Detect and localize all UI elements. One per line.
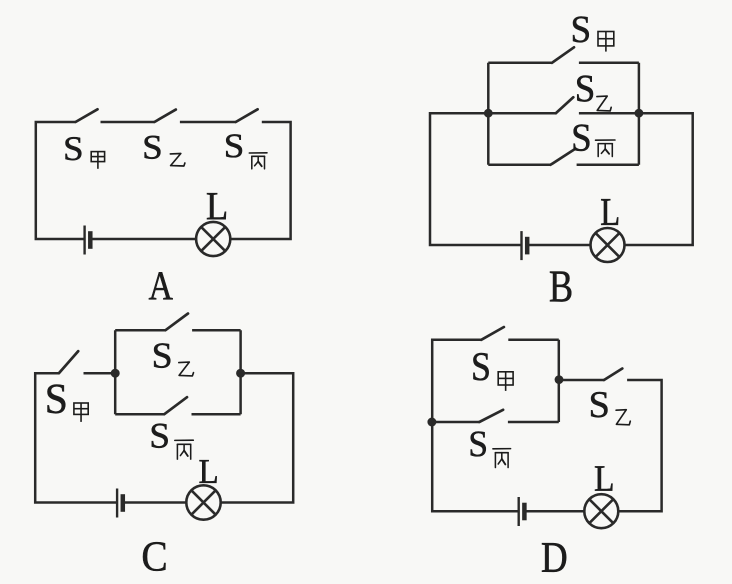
wire: C inner box right vertical	[239, 330, 242, 414]
wire: C inner box left vertical	[114, 330, 117, 414]
lamp L (circuit A)	[196, 222, 230, 256]
label jia subscript (D)	[498, 372, 513, 391]
battery cell (circuit D)	[519, 497, 525, 526]
letter B caption	[550, 272, 571, 302]
switch S_bing blade (circuit D)	[479, 410, 503, 422]
lamp L (circuit C)	[186, 485, 220, 519]
node: junction dot at inner vertical (D)	[555, 375, 564, 384]
wire: C bottom between battery and lamp	[123, 501, 186, 504]
wire: B outer left vertical and bottom-left	[430, 112, 522, 245]
wire: C outer left vertical and bottom-left	[35, 373, 117, 502]
wire: C top branch right segment	[192, 329, 241, 332]
battery cell (circuit B)	[522, 231, 528, 260]
switch S_bing blade (circuit A)	[236, 109, 258, 122]
wire: A top between S_yi and S_bing	[180, 121, 236, 124]
label bing subscript (A)	[249, 153, 267, 169]
wire: B middle branch right segment	[579, 112, 639, 115]
switch S_jia blade (circuit C)	[59, 351, 78, 373]
lamp L (circuit B)	[591, 228, 625, 262]
node: right junction dot (C)	[236, 369, 245, 378]
label yi subscript (B)	[597, 96, 611, 111]
label S of S_bing (C)	[152, 424, 168, 448]
wire: A top-right and right side	[230, 122, 290, 239]
wire: B bottom between battery and lamp	[528, 244, 591, 247]
label bing subscript (B)	[596, 140, 616, 157]
wire: C main-right, outer right vertical, bottom-right	[221, 373, 294, 502]
label S of S_yi (A)	[145, 136, 161, 159]
wire: D S_yi branch left segment	[559, 379, 604, 382]
label L (C)	[199, 460, 216, 483]
label S of S_jia (C)	[47, 385, 65, 414]
wire: B middle branch to S_yi pivot	[488, 112, 556, 115]
label S of S_yi (D)	[591, 392, 607, 417]
wire: D S_yi branch right, outer right vertical, bottom-right	[618, 380, 661, 511]
wire: B middle-right to outer right, right side, bottom-right	[625, 113, 693, 245]
wire: C top branch left segment	[115, 329, 165, 332]
battery cell (circuit C)	[117, 489, 123, 518]
wire: C bottom branch left segment	[115, 413, 164, 416]
switch S_bing blade (circuit B)	[551, 150, 574, 165]
letter C caption	[143, 542, 166, 571]
label jia subscript (B)	[598, 32, 614, 52]
switch S_jia blade (circuit B)	[552, 47, 574, 63]
letter A caption	[149, 272, 173, 299]
label yi subscript (C)	[179, 362, 194, 376]
wire: C main wire to left junction	[84, 372, 116, 375]
node: left junction dot (B)	[484, 109, 493, 118]
wire: B inner box left vertical	[487, 63, 490, 165]
switch S_yi blade (circuit A)	[154, 110, 175, 122]
wire: A bottom between battery and lamp	[91, 238, 197, 241]
label S of S_jia (B)	[573, 16, 589, 42]
node: right junction dot (B)	[635, 109, 644, 118]
wire: D top branch right segment	[508, 339, 559, 342]
wire: A top between S_jia and S_yi	[101, 121, 155, 124]
wire: D bottom between battery and lamp	[525, 510, 585, 513]
wire: B bottom branch right segment	[577, 164, 639, 167]
node: left junction dot (D)	[427, 418, 436, 427]
label S of S_yi (C)	[154, 343, 170, 367]
wire: D outer left vertical	[432, 340, 519, 511]
switch S_yi blade (circuit B)	[556, 97, 574, 113]
label bing subscript (C)	[175, 440, 194, 459]
letter D caption	[542, 543, 566, 572]
lamp L (circuit D)	[584, 494, 618, 528]
wire: circuit A left side and top-left segment	[36, 122, 85, 239]
switch S_yi blade (circuit C)	[166, 314, 189, 331]
label S of S_bing (A)	[226, 134, 242, 157]
wire: C bottom branch right segment	[192, 413, 241, 416]
label jia subscript (A)	[91, 152, 104, 169]
label L (B)	[601, 199, 618, 225]
wire: D middle branch right segment	[508, 421, 559, 424]
label S of S_jia (A)	[66, 137, 82, 160]
switch S_yi blade (circuit D)	[604, 369, 622, 381]
switch S_bing blade (circuit C)	[164, 397, 187, 414]
label S of S_bing (B)	[574, 124, 590, 151]
node: left junction dot (C)	[111, 369, 120, 378]
label S of S_bing (D)	[471, 431, 486, 456]
label L (A)	[207, 193, 226, 219]
wire: B inner box right vertical	[638, 63, 641, 165]
label jia subscript (C)	[74, 403, 88, 422]
label bing subscript (D)	[493, 449, 511, 468]
wire: B top branch right segment	[579, 62, 639, 65]
label L (D)	[595, 466, 612, 490]
wire: D inner vertical	[558, 340, 561, 422]
label S of S_jia (D)	[473, 353, 488, 380]
label yi subscript (A)	[170, 154, 185, 167]
label S of S_yi (B)	[577, 76, 593, 102]
wire: B top branch left segment	[488, 62, 552, 65]
wire: B bottom branch left segment	[488, 164, 550, 167]
switch S_jia blade (circuit D)	[481, 327, 504, 340]
wire: D middle branch left segment	[432, 421, 479, 424]
switch S_jia blade (circuit A)	[76, 109, 98, 122]
wire: B middle-left segment from outer left	[430, 112, 488, 115]
label yi subscript (D)	[616, 410, 630, 425]
battery cell (circuit A)	[85, 226, 91, 255]
